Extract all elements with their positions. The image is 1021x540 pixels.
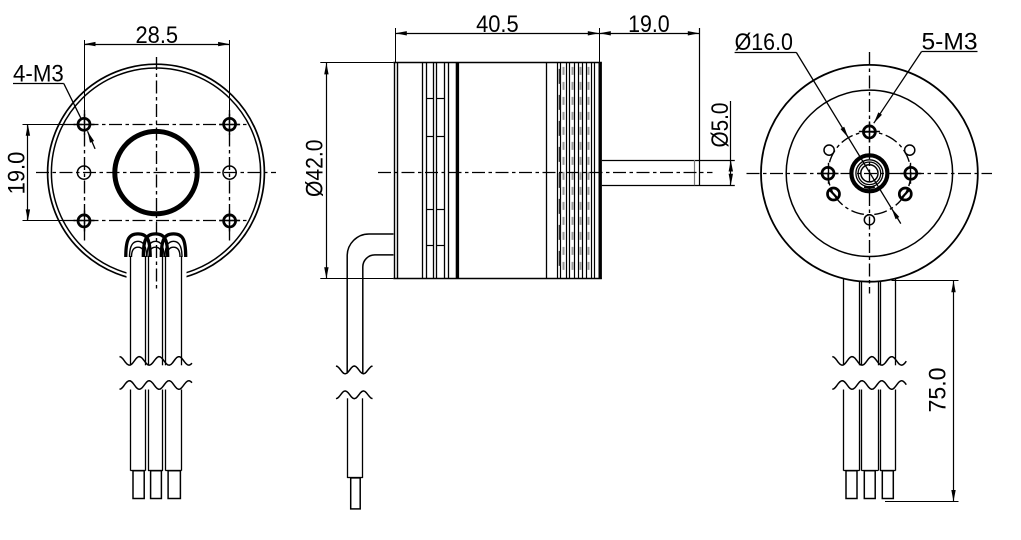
side view horizontal centerline <box>378 172 713 174</box>
front view wire end terminals <box>133 471 180 499</box>
side view mount face double line <box>394 63 396 279</box>
side view housing slot tick lines <box>426 99 444 246</box>
svg-text:75.0: 75.0 <box>925 368 952 413</box>
side view front housing fin lines <box>423 63 449 279</box>
side view body bottom edge <box>393 278 602 280</box>
side view wire break squiggle upper <box>336 366 373 374</box>
side view shaft end line and 19.0 extension <box>699 28 701 185</box>
side view wire break squiggle lower <box>336 391 373 399</box>
rear view vertical centerline <box>869 52 871 294</box>
rear view M3 tapped hole lower-left <box>828 188 840 200</box>
svg-text:40.5: 40.5 <box>476 11 519 38</box>
side view wire with elbow <box>347 234 393 478</box>
side view rear fin hidden slot dashes <box>560 67 589 275</box>
side view body right thick edge <box>599 63 602 279</box>
rear view shaft circle <box>861 165 878 182</box>
rear view wire break squiggle lower <box>832 381 906 390</box>
front view top hole row centerline <box>62 124 249 126</box>
svg-text:Ø42.0: Ø42.0 <box>302 140 329 198</box>
side view rear fin lines <box>558 63 595 279</box>
rear view M3 tapped hole top <box>859 121 880 142</box>
front view three motor wires <box>131 256 182 471</box>
rear view M3 tapped hole left <box>818 163 839 184</box>
front view M3 mounting hole bottom-left <box>74 210 95 231</box>
svg-text:19.0: 19.0 <box>628 11 670 38</box>
front view outer circle inner line <box>51 68 260 277</box>
front view wire insulation crown domes <box>126 234 186 257</box>
side view shaft bottom line <box>602 185 735 187</box>
rear view M3 tapped hole lower-right <box>899 188 911 200</box>
rear view bolt circle <box>828 132 911 215</box>
front view left hole column centerline <box>84 110 86 243</box>
front view center boss ring <box>115 131 197 213</box>
dimension diameter 42.0 <box>302 63 394 279</box>
rear view three motor wires <box>844 278 896 471</box>
front view left plain hole <box>77 166 90 179</box>
front view vertical centerline <box>156 57 158 292</box>
front view bottom hole row centerline <box>62 220 249 222</box>
dimension 19.0 hole spacing <box>4 124 78 221</box>
front view wire bundle (occludes circle) <box>127 234 187 300</box>
dimension 19.0 shaft length <box>599 11 699 38</box>
svg-text:Ø5.0: Ø5.0 <box>707 103 734 148</box>
front view horizontal centerline <box>36 172 276 174</box>
dimension diameter 5.0 shaft <box>707 101 734 185</box>
rear view retaining clip mark <box>864 186 874 189</box>
rear view inner circle <box>786 90 952 256</box>
rear view plain hole upper-right <box>905 145 915 155</box>
svg-text:19.0: 19.0 <box>4 152 31 195</box>
side view shaft top line <box>602 160 735 162</box>
front view right plain hole <box>223 166 236 179</box>
rear view wire end terminals <box>846 471 893 499</box>
dimension 75.0 wire length <box>885 280 959 501</box>
side view rotor bell edge line <box>546 63 548 279</box>
label 4-M3 with leader <box>13 60 95 149</box>
rear view bearing circle outer <box>856 160 883 187</box>
front view outer circle <box>48 64 265 281</box>
svg-text:28.5: 28.5 <box>136 22 179 49</box>
front view M3 mounting hole top-left <box>74 114 95 135</box>
side view shaft ring groove <box>694 160 696 185</box>
rear view horizontal centerline <box>747 173 993 175</box>
front view wire break squiggle lower <box>120 381 193 390</box>
rear view shaft boss thick ring <box>851 155 887 191</box>
dimension 28.5 hole spacing <box>84 22 230 119</box>
label 5-M3 with leader <box>874 28 978 123</box>
front view wire break squiggle upper <box>120 357 193 366</box>
rear view plain hole bottom <box>864 215 874 225</box>
rear view plain hole upper-left <box>824 145 834 155</box>
rear view wire break squiggle upper <box>832 357 906 366</box>
rear view M3 tapped hole right <box>900 163 921 184</box>
side view front housing thick edge <box>456 63 459 279</box>
side view body top edge <box>393 62 602 64</box>
front view right hole column centerline <box>229 110 231 243</box>
svg-text:Ø16.0: Ø16.0 <box>735 29 793 56</box>
dimension 40.5 body length <box>395 11 699 63</box>
front view M3 mounting hole top-right <box>219 114 240 135</box>
label diameter 16.0 bolt circle with leader <box>735 29 901 224</box>
rear view outer circle <box>761 65 978 282</box>
side view wire end terminal <box>351 478 361 509</box>
rear view bearing circle inner <box>858 162 881 185</box>
front view M3 mounting hole bottom-right <box>219 210 240 231</box>
